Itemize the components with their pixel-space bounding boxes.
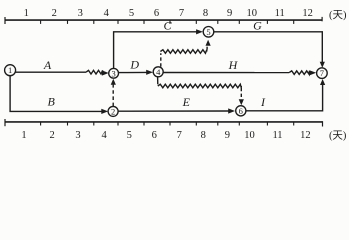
svg-text:5: 5 [127, 130, 132, 141]
svg-text:6: 6 [239, 106, 243, 116]
svg-text:8: 8 [201, 130, 206, 141]
svg-text:B: B [48, 95, 56, 109]
svg-text:3: 3 [75, 130, 80, 141]
svg-text:2: 2 [52, 8, 57, 19]
svg-text:12: 12 [300, 130, 311, 141]
svg-text:11: 11 [272, 130, 282, 141]
svg-text:G: G [253, 18, 262, 32]
svg-text:2: 2 [111, 106, 115, 116]
svg-text:5: 5 [206, 27, 210, 37]
svg-text:7: 7 [177, 130, 182, 141]
svg-text:5: 5 [129, 8, 134, 19]
svg-text:11: 11 [275, 8, 285, 19]
svg-text:1: 1 [21, 130, 26, 141]
svg-text:H: H [228, 58, 239, 72]
svg-text:9: 9 [225, 130, 230, 141]
svg-text:D: D [129, 57, 139, 71]
svg-text:7: 7 [179, 8, 184, 19]
svg-text:10: 10 [244, 130, 255, 141]
svg-text:1: 1 [8, 65, 12, 75]
svg-text:6: 6 [154, 8, 159, 19]
svg-text:9: 9 [227, 8, 232, 19]
svg-text:1: 1 [24, 8, 29, 19]
svg-text:E: E [182, 95, 191, 109]
svg-text:(天): (天) [329, 10, 347, 21]
svg-text:7: 7 [320, 68, 324, 78]
svg-text:3: 3 [111, 68, 115, 78]
svg-text:(天): (天) [329, 131, 347, 142]
svg-text:A: A [43, 58, 52, 72]
svg-text:8: 8 [203, 8, 208, 19]
svg-text:2: 2 [49, 130, 54, 141]
svg-text:6: 6 [152, 130, 157, 141]
svg-text:C: C [163, 18, 172, 32]
svg-text:3: 3 [78, 8, 83, 19]
svg-text:4: 4 [156, 67, 161, 77]
svg-text:4: 4 [101, 130, 107, 141]
svg-text:12: 12 [302, 8, 313, 19]
svg-text:4: 4 [104, 8, 110, 19]
